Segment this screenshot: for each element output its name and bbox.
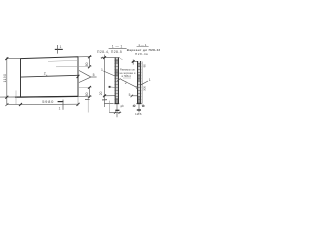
svg-text:в П28-4: в П28-4 [122, 74, 132, 78]
section2 top extension [132, 60, 138, 62]
label 2 tick [46, 75, 48, 77]
panel bottom edge bold [15, 95, 78, 98]
section1 rebar dot callout [109, 86, 111, 88]
section2 leader target circle [136, 87, 138, 89]
section1 member hatch dark [116, 58, 118, 103]
section2 label 1 leader [141, 81, 148, 85]
inner groove line [56, 65, 92, 67]
small arrow tick at 88,99.5 [85, 98, 90, 100]
left dim extension top [7, 58, 21, 60]
section mark top: stem [57, 45, 59, 54]
bottom extension right [78, 95, 92, 97]
section2 bottom centerline [138, 104, 140, 113]
section1 member left face [114, 58, 116, 104]
callout 5 leader upper [79, 71, 91, 77]
left dim line vertical [6, 57, 8, 104]
section2 top stub [132, 59, 134, 64]
right dim tick a [88, 55, 91, 58]
section1 label 1 leader [103, 71, 115, 76]
section mark top: bold bar [55, 48, 63, 50]
section2 member hatch dark [138, 62, 140, 104]
section2 bottom bold dash [137, 109, 141, 111]
panel plan rectangle [21, 57, 79, 97]
right dim tick b [88, 65, 91, 68]
section1 bottom thin bar [109, 112, 121, 114]
section1 member rungs [115, 60, 119, 99]
svg-text:1: 1 [149, 78, 151, 82]
svg-text:1 — 1: 1 — 1 [112, 44, 123, 48]
bottom dim tick right [77, 103, 80, 106]
svg-text:300: 300 [142, 86, 146, 91]
section2 member right face [140, 61, 142, 104]
svg-text:1 — 1: 1 — 1 [138, 43, 147, 47]
section2 label 5 shelf [131, 95, 138, 97]
bottom dim tick left [19, 103, 22, 106]
section2 member rungs [137, 63, 141, 102]
callout 5 leader lower [79, 77, 91, 82]
faint vertical below right dim [87, 97, 89, 113]
svg-text:2: 2 [125, 81, 127, 85]
section2 bottom circles [133, 105, 135, 107]
section2 member left face [137, 61, 139, 104]
section1 rebar dot leader [111, 86, 116, 88]
svg-text:П28-4в: П28-4в [135, 52, 148, 56]
svg-text:20: 20 [99, 91, 103, 95]
right dim tick c [88, 86, 91, 89]
extension line x16 bottom left [15, 91, 17, 105]
section1 dim bar at 99.8 [102, 99, 107, 101]
right dim line lower segment [88, 87, 90, 97]
right dims of plan: top extension [78, 56, 92, 58]
svg-text:Размеры см.: Размеры см. [120, 67, 136, 71]
section1 bottom centerline [116, 104, 118, 118]
svg-text:1: 1 [101, 68, 103, 72]
svg-text:5: 5 [129, 93, 131, 97]
svg-text:П28-4, П28-5: П28-4, П28-5 [97, 50, 122, 54]
section1 left dim tick top [103, 56, 106, 59]
section mark bottom: stem [62, 100, 64, 110]
rect right edge extension down [77, 96, 79, 105]
svg-text:80: 80 [85, 62, 89, 66]
right dim tick d [88, 96, 91, 99]
section1 level line [103, 95, 115, 97]
section2 right thin vertical [141, 62, 143, 104]
svg-text:1Ø6: 1Ø6 [135, 112, 142, 116]
section2 title rule [137, 46, 149, 48]
svg-text:1: 1 [59, 106, 61, 110]
bar end ticks [114, 112, 116, 114]
svg-text:2: 2 [44, 72, 46, 76]
section2 top tick [132, 60, 135, 63]
svg-text:5: 5 [93, 73, 95, 77]
note leader [117, 78, 120, 81]
panel faint top inner line [48, 60, 78, 61]
bottom dim corner tick [5, 103, 8, 106]
section1 title rule [109, 47, 127, 49]
left dim extension bottom [0, 96, 15, 98]
section1 top extension [101, 57, 120, 59]
left dim tick bottom [5, 96, 8, 99]
section1 member bottom cap [114, 103, 119, 105]
section1 bottom ext bar [104, 102, 113, 104]
bar left ext vertical [108, 101, 110, 113]
svg-text:80: 80 [142, 64, 146, 68]
panel mid joint line [21, 75, 79, 77]
svg-text:80: 80 [85, 92, 89, 96]
right dim line upper segment [88, 56, 90, 67]
section2 label 5 tick [131, 95, 133, 98]
callout 5 shelf [91, 76, 97, 78]
section2 member bottom cap [137, 103, 142, 105]
section1 top stub arrow [101, 57, 103, 59]
svg-text:5980: 5980 [42, 99, 54, 104]
section1 level tick [103, 94, 106, 97]
note underline [123, 77, 131, 79]
section1 left dim line [103, 55, 105, 107]
section1 member right face [117, 58, 119, 104]
mid line edge tick [77, 75, 80, 78]
section mark bottom: bold bar [58, 101, 64, 103]
svg-text:1: 1 [60, 45, 62, 49]
svg-text:1190: 1190 [3, 74, 7, 83]
section1 bottom bold dash [115, 109, 119, 111]
note text block [120, 67, 136, 78]
left dim tick top [5, 57, 8, 60]
ext line lower dim top [78, 86, 92, 88]
section2 label 2 leader [121, 79, 137, 87]
section2 bottom circle ticks [132, 105, 135, 107]
bottom dim line [7, 103, 78, 106]
note top tick [120, 58, 123, 60]
